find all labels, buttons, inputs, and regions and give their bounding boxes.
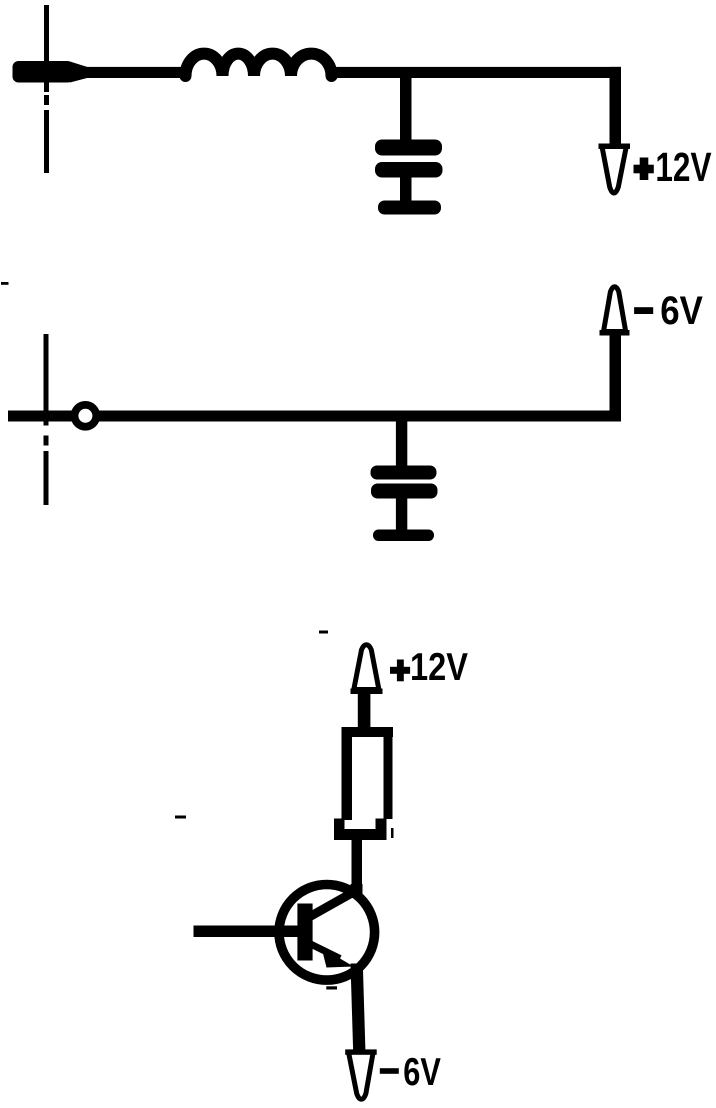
- label -6V: [634, 289, 703, 333]
- resistor R1 body: [342, 727, 394, 820]
- pin terminal -6V (down cone): [345, 1049, 377, 1099]
- label +12V: [634, 144, 712, 190]
- svg-text:6V: 6V: [403, 1051, 441, 1094]
- stray mark: [319, 631, 328, 634]
- open terminal (circle): [75, 405, 97, 427]
- centerline (dash-dot) middle: [44, 334, 49, 505]
- capacitor C1 plate 1: [375, 140, 442, 156]
- wire: +12V pin to resistor: [358, 692, 371, 728]
- capacitor C2 ground bar: [373, 530, 434, 542]
- base wire: [194, 926, 298, 938]
- stray mark: [1, 282, 9, 285]
- capacitor C1 plate 2: [375, 162, 443, 178]
- pin terminal +12V (down cone): [599, 144, 631, 194]
- svg-text:6V: 6V: [660, 289, 703, 333]
- collector lead (diagonal): [307, 889, 360, 919]
- centerline (dash-dot) top: [44, 5, 49, 173]
- label -6V (bottom): [380, 1051, 441, 1094]
- wire: right vertical drop to +12V pin: [610, 67, 622, 144]
- pin terminal -6V (up cone): [600, 287, 630, 336]
- collector wire above circle: [351, 884, 363, 898]
- capacitor C2 lower stem: [396, 497, 407, 531]
- stray mark below transistor: [326, 986, 337, 989]
- capacitor C2 plate 1: [371, 466, 437, 480]
- terminal stub (antenna feed): [13, 61, 88, 83]
- stray mark left of resistor: [175, 816, 186, 819]
- feedthrough capacitor C1 stem: [400, 77, 412, 143]
- wire: horizontal bus: [8, 411, 621, 422]
- resistor R1 bottom cap: [334, 819, 387, 841]
- svg-text:12V: 12V: [655, 144, 711, 190]
- transistor Q1 body circle: [279, 885, 375, 981]
- stray tick right of resistor: [391, 828, 394, 838]
- inductor L1: [186, 54, 332, 76]
- pin terminal +12V (up cone): [351, 645, 383, 694]
- wire: resistor to transistor collector: [352, 839, 363, 889]
- feedthrough capacitor C2 stem: [396, 420, 407, 467]
- label +12V (bottom): [390, 646, 468, 689]
- capacitor C2 plate 2: [371, 484, 438, 499]
- capacitor C1 lower stem: [400, 176, 412, 203]
- emitter lead with arrow: [308, 943, 354, 968]
- capacitor C1 ground bar: [378, 201, 441, 215]
- wire: stub to inductor: [84, 67, 191, 78]
- wire: -6V pin down to bus: [610, 334, 622, 422]
- transistor Q1 base bar: [297, 904, 312, 961]
- wire: inductor to corner: [327, 67, 621, 78]
- svg-text:12V: 12V: [410, 646, 468, 689]
- emitter wire: [351, 964, 366, 1050]
